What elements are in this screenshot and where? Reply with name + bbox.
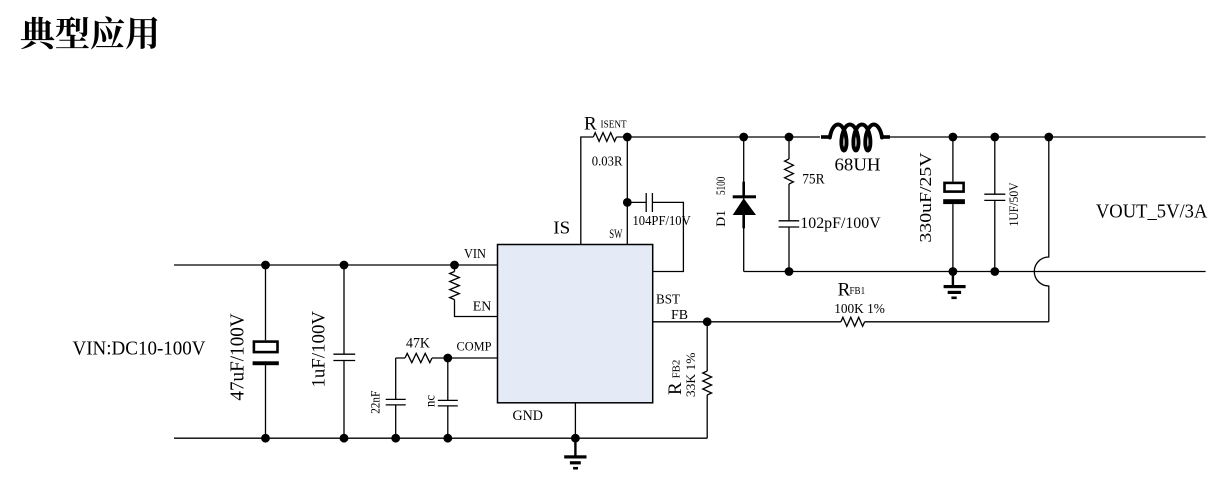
wire feedback tap with hop (1034, 137, 1049, 322)
resistor 47K COMP (405, 353, 432, 362)
svg-text:SW: SW (609, 226, 623, 241)
wire 1uF capacitor branch (343, 265, 345, 438)
svg-text:R: R (584, 113, 597, 134)
node bottom rail / 47uF (261, 434, 270, 443)
svg-text:BST: BST (656, 293, 680, 308)
node top rail / D1 (739, 133, 748, 142)
node input rail / EN resistor (450, 261, 459, 270)
node gnd rail / 330uF (949, 267, 958, 276)
node top rail / 1UF (990, 133, 999, 142)
ground symbol output (944, 272, 966, 300)
svg-text:nc: nc (424, 395, 439, 407)
node bottom rail / nc (443, 434, 452, 443)
svg-text:FB1: FB1 (850, 286, 866, 297)
capacitor 22nF plates (386, 399, 406, 405)
svg-text:FB: FB (671, 308, 688, 323)
svg-text:IS: IS (553, 218, 570, 238)
node gnd rail / 1UF (990, 267, 999, 276)
wire GND pin down (574, 403, 576, 438)
wire output ground rail (744, 271, 1206, 273)
svg-text:68UH: 68UH (835, 155, 881, 175)
svg-text:102pF/100V: 102pF/100V (800, 215, 881, 232)
wire 47uF capacitor branch (265, 265, 267, 438)
node top rail / FB tap (1044, 133, 1053, 142)
wire input top rail VIN (174, 264, 498, 266)
svg-text:22nF: 22nF (367, 391, 382, 414)
svg-text:COMP: COMP (457, 339, 492, 354)
node bottom rail / 1uF (340, 434, 349, 443)
node input rail / 1uF (340, 261, 349, 270)
svg-text:FB2: FB2 (672, 360, 683, 379)
wire 330uF branch (952, 137, 954, 272)
wire EN divider branch (455, 265, 498, 317)
svg-text:75R: 75R (802, 172, 824, 188)
capacitor 102pF plates (779, 221, 800, 227)
wire COMP network (396, 358, 498, 438)
node top rail / snubber (785, 133, 794, 142)
node COMP junction (443, 354, 452, 363)
svg-text:GND: GND (512, 408, 543, 424)
inductor L1 68UH (821, 125, 890, 151)
diode D1 5100 (733, 182, 756, 229)
node bottom rail / GND (571, 434, 580, 443)
svg-text:EN: EN (473, 299, 492, 314)
svg-text:0.03R: 0.03R (592, 155, 623, 170)
wire 104PF bootstrap link (627, 202, 683, 271)
svg-text:VOUT_5V/3A: VOUT_5V/3A (1096, 201, 1208, 223)
wire output top rail (627, 136, 820, 138)
wire IS pin up to sense resistor (581, 137, 628, 245)
capacitor C5 1UF/50V plates (984, 194, 1005, 200)
svg-text:47K: 47K (406, 336, 430, 352)
capacitor C2 1uF/100V plates (333, 354, 355, 360)
svg-text:33K 1%: 33K 1% (683, 352, 698, 397)
resistor 75R (785, 159, 794, 184)
capacitor C3 104PF/10V plates (646, 193, 652, 212)
wire input bottom rail (ground return) (174, 437, 707, 439)
op-amp U1 converter IC body (498, 245, 653, 403)
svg-text:1UF/50V: 1UF/50V (1006, 182, 1021, 227)
resistor R_ISENT 0.03R (593, 133, 616, 142)
node input rail / 47uF (261, 261, 270, 270)
svg-text:330uF/25V: 330uF/25V (916, 152, 935, 243)
node SW / 104PF (623, 198, 632, 207)
title 典型应用 (21, 16, 158, 49)
svg-text:VIN: VIN (464, 247, 486, 262)
wire diode branch (743, 137, 745, 272)
node SW top (623, 133, 632, 142)
ground symbol main (564, 438, 586, 469)
wire 1UF/50V branch (994, 137, 996, 272)
node top rail / 330uF (949, 133, 958, 142)
svg-text:100K 1%: 100K 1% (834, 301, 885, 316)
resistor R_FB2 33K (703, 371, 712, 395)
node FB / R_FB2 (703, 317, 712, 326)
svg-text:D1: D1 (713, 210, 728, 227)
svg-text:ISENT: ISENT (601, 120, 628, 131)
wire SW node vertical (626, 137, 628, 245)
resistor EN pull-up (450, 272, 460, 300)
capacitor C4 330uF/25V electrolytic (943, 183, 965, 204)
wire R_FB2 branch (706, 322, 708, 438)
resistor R_FB1 100K (841, 317, 865, 326)
node bottom rail / 22nF (391, 434, 400, 443)
svg-text:104PF/10V: 104PF/10V (633, 214, 691, 229)
svg-text:1uF/100V: 1uF/100V (308, 311, 329, 388)
wire FB network (653, 321, 1049, 323)
capacitor nc plates (438, 400, 458, 406)
svg-text:5100: 5100 (713, 177, 728, 195)
svg-text:47uF/100V: 47uF/100V (227, 313, 249, 401)
capacitor C1 47uF/100V electrolytic (253, 342, 279, 366)
svg-text:VIN:DC10-100V: VIN:DC10-100V (73, 338, 207, 360)
wire snubber branch 75R + 102pF (788, 137, 790, 272)
node gnd rail / snubber (785, 267, 794, 276)
